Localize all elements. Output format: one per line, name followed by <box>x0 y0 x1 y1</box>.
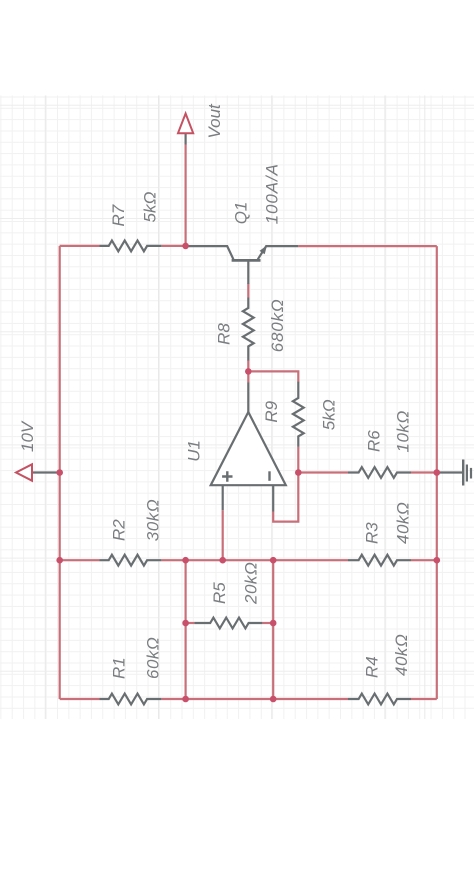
resistor R7 <box>100 241 162 252</box>
wire Vout stem <box>185 145 187 246</box>
op-amp U1 <box>211 383 286 512</box>
wire V+ rail to R7 <box>60 245 100 247</box>
wire U1 inverting input to R9 node <box>273 473 298 522</box>
wire U1 non-inverting input down <box>222 510 224 560</box>
resistor R8 <box>243 298 254 361</box>
svg-text:20kΩ: 20kΩ <box>242 562 261 605</box>
node B top junction <box>270 557 277 564</box>
resistor R2 <box>100 555 162 566</box>
node 10V junction <box>56 469 63 476</box>
net flag Vout <box>178 114 193 145</box>
svg-text:10kΩ: 10kΩ <box>394 410 413 452</box>
svg-text:U1: U1 <box>185 440 204 462</box>
ground <box>437 460 471 486</box>
wire R3 to right rail <box>411 559 437 561</box>
svg-text:10V: 10V <box>18 420 37 452</box>
wire left rail to R1 <box>60 698 100 700</box>
wire feedback node to R9 top <box>248 371 298 382</box>
svg-text:R2: R2 <box>110 519 129 541</box>
wire R5 to node B <box>262 622 273 624</box>
node A / R5 junction <box>182 620 189 627</box>
svg-text:5kΩ: 5kΩ <box>320 399 339 430</box>
svg-text:5kΩ: 5kΩ <box>141 192 160 223</box>
svg-text:Q1: Q1 <box>232 202 251 225</box>
svg-text:R3: R3 <box>363 522 382 544</box>
svg-text:R5: R5 <box>210 582 229 604</box>
svg-text:680kΩ: 680kΩ <box>268 299 287 353</box>
wire Q1 base to R8 <box>247 284 249 298</box>
svg-text:R1: R1 <box>110 657 129 679</box>
svg-text:30kΩ: 30kΩ <box>144 499 163 541</box>
wire Q1 emitter to right rail <box>298 245 437 247</box>
svg-text:R8: R8 <box>215 323 234 345</box>
transistor Q1 <box>189 245 299 284</box>
node ground junction <box>434 469 441 476</box>
svg-text:R9: R9 <box>262 400 281 422</box>
resistor R1 <box>100 694 162 705</box>
wire left rail (10V net) <box>59 246 61 699</box>
wire R1 to R4 row <box>162 698 349 700</box>
wire R6 to right rail <box>411 471 437 473</box>
svg-text:R6: R6 <box>365 430 384 452</box>
wire R4 to right rail <box>411 698 437 700</box>
node B bottom junction <box>270 696 277 703</box>
resistor R3 <box>348 555 411 566</box>
wire node A to R5 <box>186 622 195 624</box>
node R9 / R6 / inverting junction <box>295 469 302 476</box>
svg-text:100A/A: 100A/A <box>263 163 282 224</box>
node U1 output / R8 / R9 junction <box>245 368 252 375</box>
wire left rail to R2 <box>60 559 100 561</box>
node A top junction <box>182 557 189 564</box>
svg-text:Vout: Vout <box>205 103 224 139</box>
wire R9 node to R6 <box>298 471 348 473</box>
node left rail / R2 junction <box>56 557 63 564</box>
wire node B vertical <box>272 560 274 699</box>
wire R9 bottom <box>297 447 299 473</box>
svg-text:40kΩ: 40kΩ <box>392 634 411 676</box>
wire right rail <box>436 246 438 699</box>
svg-text:60kΩ: 60kΩ <box>144 637 163 679</box>
node B / R5 junction <box>270 620 277 627</box>
svg-text:R4: R4 <box>363 656 382 678</box>
net flag 10V <box>16 464 57 480</box>
resistor R5 <box>194 618 262 629</box>
svg-text:R7: R7 <box>109 204 128 226</box>
resistor R6 <box>348 467 411 478</box>
node non-inverting junction <box>219 557 226 564</box>
wire R2 to R3 row <box>162 559 349 561</box>
resistor R9 <box>293 382 304 447</box>
wire R8 to U1 output node <box>247 360 249 383</box>
wire R7 to Vout node <box>162 245 186 247</box>
node right rail / R3 junction <box>434 557 441 564</box>
wire node A vertical <box>185 560 187 699</box>
resistor R4 <box>348 694 411 705</box>
svg-text:40kΩ: 40kΩ <box>394 502 413 544</box>
node Vout junction <box>182 243 189 250</box>
node A bottom junction <box>182 696 189 703</box>
